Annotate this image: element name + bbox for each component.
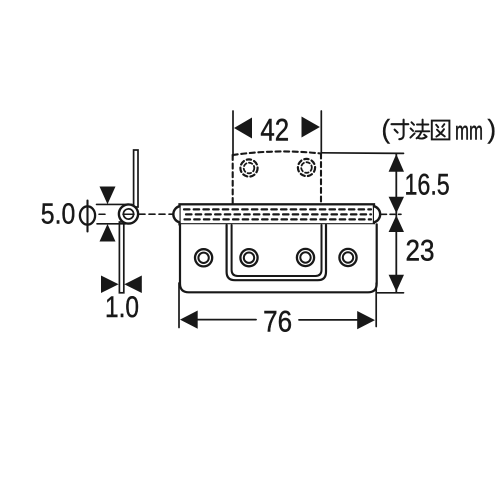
svg-text:mm: mm bbox=[455, 116, 483, 146]
svg-text:5.0: 5.0 bbox=[41, 198, 76, 230]
dim 76 arrow left bbox=[180, 311, 198, 329]
flap hole left outer bbox=[240, 159, 257, 176]
body hole 2 inner bbox=[244, 253, 254, 263]
svg-text:1.0: 1.0 bbox=[105, 291, 139, 324]
side view: lower leaf plate bbox=[119, 222, 123, 293]
svg-text:(: ( bbox=[382, 114, 391, 144]
kanji HOU (method) bbox=[410, 120, 429, 139]
side view: pivot barrel circle inner bbox=[123, 209, 133, 219]
dim 76 arrow right bbox=[357, 311, 375, 329]
dashed center line from side view to barrel bbox=[139, 213, 173, 215]
dim 5.0 arrow up bbox=[100, 224, 116, 242]
cutout outer line bbox=[227, 225, 326, 280]
side view: pivot barrel circle outer bbox=[119, 204, 138, 223]
body hole 2 outer bbox=[240, 249, 257, 266]
body hole 1 outer bbox=[195, 249, 212, 266]
dim 76 right extension line bbox=[375, 283, 377, 327]
flap hole left inner bbox=[244, 163, 255, 174]
lower leaf body outline bbox=[180, 224, 377, 292]
dim 76 left extension line bbox=[178, 283, 180, 328]
upper flap dashed top edge bbox=[233, 151, 321, 155]
kanji SUN (measure) bbox=[392, 120, 409, 140]
dim 5.0 top extension line bbox=[97, 203, 133, 205]
dim 23 arrow down bbox=[389, 275, 404, 292]
svg-text:42: 42 bbox=[260, 112, 289, 148]
flap hole right outer bbox=[298, 159, 315, 176]
dim 5.0 bottom extension line bbox=[97, 223, 126, 225]
dim 23 arrow up bbox=[389, 215, 404, 232]
dim 76 line left segment bbox=[196, 319, 256, 321]
body hole 4 inner bbox=[343, 252, 353, 262]
body hole 3 inner bbox=[300, 252, 310, 262]
dim 76 line right segment bbox=[299, 319, 358, 321]
kanji ZU (drawing) bbox=[432, 121, 450, 140]
dim 16.5 top extension line bbox=[322, 152, 404, 155]
body hole 1 inner bbox=[198, 253, 208, 263]
upper flap dashed left edge bbox=[232, 155, 234, 204]
flap hole right inner bbox=[301, 162, 312, 173]
barrel right end cap bbox=[374, 206, 380, 222]
right dimension vertical line bbox=[395, 153, 397, 292]
dim 42 arrow right bbox=[302, 117, 320, 138]
svg-text:76: 76 bbox=[263, 306, 292, 339]
dim 23 bottom extension line bbox=[377, 292, 404, 294]
svg-text:23: 23 bbox=[406, 235, 435, 268]
dim 42 left extension line bbox=[232, 111, 234, 156]
centerline dash left of side circle bbox=[99, 213, 105, 215]
dim 42 arrow left bbox=[234, 118, 252, 139]
dashed center line right of barrel bbox=[382, 213, 402, 215]
upper flap dashed right edge bbox=[320, 154, 322, 204]
svg-text:): ) bbox=[488, 114, 497, 144]
barrel body bbox=[180, 204, 375, 224]
dim 42 right extension line bbox=[320, 111, 322, 153]
svg-text:16.5: 16.5 bbox=[405, 169, 450, 202]
barrel knurl dashes row 2 bbox=[186, 213, 371, 215]
centerline dash through side circle bbox=[123, 213, 134, 215]
dim 16.5 arrow down bbox=[389, 197, 404, 213]
barrel knurl dashes row 3 bbox=[185, 218, 372, 220]
label phi symbol bbox=[80, 201, 95, 232]
dim 16.5 arrow up bbox=[389, 154, 404, 172]
body hole 4 outer bbox=[339, 249, 356, 266]
dim 5.0 arrow down bbox=[100, 187, 116, 205]
cutout inner line bbox=[232, 225, 322, 276]
barrel knurl dashes row 1 bbox=[184, 208, 371, 210]
barrel left end cap bbox=[173, 206, 179, 222]
dim 1.0 arrow right bbox=[101, 276, 119, 294]
body hole 3 outer bbox=[297, 249, 314, 266]
dim 1.0 arrow left bbox=[124, 276, 142, 294]
side view: upper leaf plate bbox=[134, 150, 138, 207]
